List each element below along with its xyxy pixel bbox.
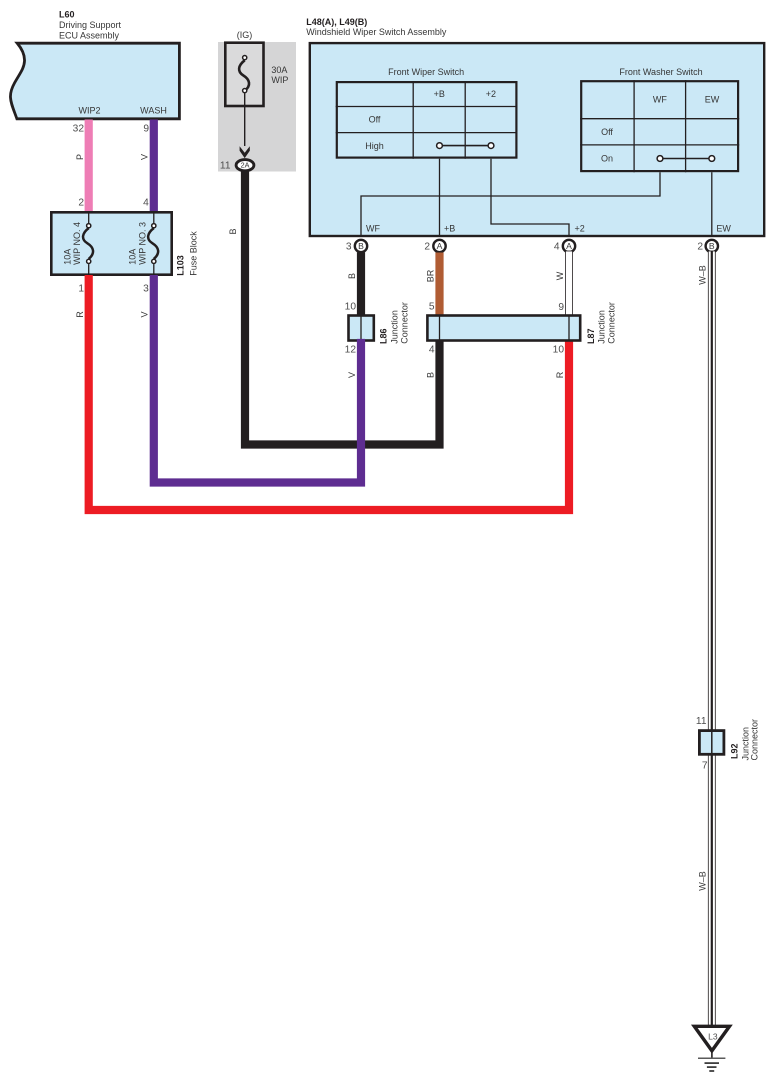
svg-text:+2: +2 xyxy=(486,89,496,99)
label L92 Junction Connector xyxy=(729,719,759,761)
svg-text:9: 9 xyxy=(143,124,149,135)
connector pin 3 B xyxy=(355,240,367,252)
wire R (red) fuse to L87 pin 10 xyxy=(89,275,569,510)
Front Washer Switch table xyxy=(580,67,739,172)
svg-text:2: 2 xyxy=(78,197,84,208)
wire B pin3 to L86 xyxy=(357,253,365,317)
wire W pin4 to L87 xyxy=(566,251,573,317)
svg-text:R: R xyxy=(75,311,85,318)
svg-text:Front Washer Switch: Front Washer Switch xyxy=(619,67,702,77)
svg-text:BR: BR xyxy=(426,269,436,282)
svg-text:R: R xyxy=(555,371,565,378)
svg-text:L3: L3 xyxy=(708,1032,718,1042)
svg-text:W–B: W–B xyxy=(698,265,708,285)
svg-text:10A: 10A xyxy=(127,249,137,265)
svg-text:L86: L86 xyxy=(379,328,389,344)
Front Wiper Switch table xyxy=(336,67,518,159)
svg-text:EW: EW xyxy=(716,223,731,233)
svg-text:B: B xyxy=(709,241,715,251)
svg-text:4: 4 xyxy=(554,242,560,253)
svg-text:1: 1 xyxy=(78,283,84,294)
svg-text:Connector: Connector xyxy=(400,302,410,344)
washer On contact xyxy=(657,156,715,162)
svg-text:10: 10 xyxy=(345,302,357,313)
svg-text:11: 11 xyxy=(696,716,707,727)
wire BR pin2 to L87 xyxy=(435,253,443,317)
svg-text:B: B xyxy=(347,273,357,279)
svg-text:3: 3 xyxy=(346,242,352,253)
svg-text:WASH: WASH xyxy=(140,106,167,116)
arrow xyxy=(240,146,250,158)
wiper High contact xyxy=(437,143,494,149)
fuse 30A WIP box xyxy=(225,43,263,106)
svg-text:Junction: Junction xyxy=(390,310,400,344)
svg-text:Connector: Connector xyxy=(749,719,759,761)
connector pin 4 A xyxy=(563,240,575,252)
svg-text:Fuse Block: Fuse Block xyxy=(189,231,199,276)
svg-text:EW: EW xyxy=(705,95,720,105)
label L48(A), L49(B) xyxy=(306,17,447,37)
wire +2 internal xyxy=(491,159,569,237)
node 2A xyxy=(236,160,254,171)
svg-text:V: V xyxy=(139,311,149,317)
svg-text:B: B xyxy=(228,228,238,234)
svg-text:V: V xyxy=(347,372,357,378)
svg-text:WIP2: WIP2 xyxy=(78,106,100,116)
svg-text:+B: +B xyxy=(434,89,445,99)
svg-text:W–B: W–B xyxy=(698,871,708,891)
svg-text:7: 7 xyxy=(702,761,708,772)
svg-text:Connector: Connector xyxy=(607,302,617,344)
svg-text:WF: WF xyxy=(653,95,667,105)
svg-text:30A: 30A xyxy=(271,65,287,75)
svg-text:Driving Support: Driving Support xyxy=(59,20,122,30)
svg-text:L92: L92 xyxy=(729,743,739,759)
svg-text:Windshield Wiper Switch Assemb: Windshield Wiper Switch Assembly xyxy=(306,27,447,37)
fuse WIP NO.4 xyxy=(83,213,93,275)
svg-text:ECU Assembly: ECU Assembly xyxy=(59,30,120,40)
svg-text:Front Wiper Switch: Front Wiper Switch xyxy=(388,67,464,77)
svg-text:(IG): (IG) xyxy=(237,30,253,40)
junction connector L86 xyxy=(349,316,374,341)
svg-text:10: 10 xyxy=(553,345,565,356)
ground L3 xyxy=(694,1026,729,1071)
svg-text:10A: 10A xyxy=(62,249,72,265)
svg-text:Off: Off xyxy=(369,115,381,125)
svg-text:WIP NO. 4: WIP NO. 4 xyxy=(72,222,82,265)
svg-text:4: 4 xyxy=(143,197,149,208)
connector pin 2 A xyxy=(433,240,445,252)
svg-text:A: A xyxy=(437,241,443,251)
svg-text:12: 12 xyxy=(345,345,357,356)
ECU L60 box xyxy=(10,43,179,119)
svg-text:L103: L103 xyxy=(176,255,186,276)
svg-text:2: 2 xyxy=(424,242,430,253)
value label 30A WIP xyxy=(271,65,288,85)
svg-text:Junction: Junction xyxy=(597,310,607,344)
svg-text:11: 11 xyxy=(220,160,231,171)
IG gray zone xyxy=(218,42,296,172)
svg-text:P: P xyxy=(75,154,85,160)
svg-text:W: W xyxy=(555,271,565,280)
svg-text:A: A xyxy=(566,241,572,251)
svg-text:9: 9 xyxy=(558,302,564,313)
svg-text:WIP NO. 3: WIP NO. 3 xyxy=(137,222,147,265)
label L60 xyxy=(59,9,122,40)
svg-text:2A: 2A xyxy=(241,161,250,170)
svg-text:V: V xyxy=(139,154,149,160)
wire B thick from 2A node to L87 pin 4 xyxy=(245,171,440,445)
label L103 Fuse Block xyxy=(176,231,199,276)
value label 10A WIP NO. 4 xyxy=(62,222,82,265)
svg-text:5: 5 xyxy=(429,302,435,313)
svg-text:B: B xyxy=(358,241,364,251)
wire V (violet) WASH to fuse xyxy=(150,120,158,213)
fuse WIP NO.3 xyxy=(148,213,158,275)
wire W-B pin2B to ground xyxy=(708,251,715,1028)
svg-text:3: 3 xyxy=(143,283,149,294)
svg-text:WF: WF xyxy=(366,223,380,233)
svg-text:On: On xyxy=(601,154,613,164)
junction connector L87 xyxy=(427,316,580,341)
svg-text:+2: +2 xyxy=(575,223,585,233)
label L86 Junction Connector xyxy=(379,302,410,344)
wire V L86 to fuse (over black) xyxy=(154,275,361,483)
connector pin 2 B xyxy=(706,240,718,252)
svg-text:4: 4 xyxy=(429,345,435,356)
svg-text:2: 2 xyxy=(697,242,703,253)
wire EW internal xyxy=(711,172,713,236)
svg-text:L48(A), L49(B): L48(A), L49(B) xyxy=(306,17,367,27)
wire +B internal xyxy=(439,159,441,237)
svg-text:High: High xyxy=(365,141,384,151)
wire WF internal xyxy=(361,172,660,236)
svg-text:+B: +B xyxy=(444,223,455,233)
svg-text:WIP: WIP xyxy=(271,75,288,85)
svg-text:B: B xyxy=(426,372,436,378)
svg-text:32: 32 xyxy=(73,124,85,135)
svg-text:L60: L60 xyxy=(59,9,75,19)
wire fuse to 2A arrow xyxy=(244,93,246,146)
svg-text:L87: L87 xyxy=(586,328,596,344)
wire P (pink) WIP2 to fuse xyxy=(85,120,93,213)
junction connector L92 xyxy=(699,731,724,755)
value label 10A WIP NO. 3 xyxy=(127,222,147,265)
wiper switch assembly box L48/L49 xyxy=(310,43,764,236)
svg-text:Off: Off xyxy=(601,127,613,137)
label L87 Junction Connector xyxy=(586,302,617,344)
fuse block L103 xyxy=(51,212,171,274)
